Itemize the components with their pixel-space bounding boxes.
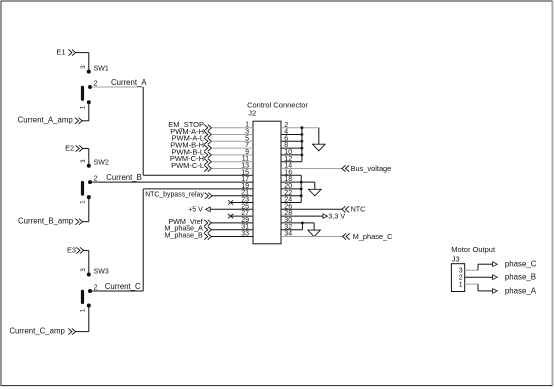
svg-text:M_phase_B: M_phase_B <box>164 231 203 240</box>
svg-text:3: 3 <box>80 268 87 272</box>
wire NTC_bypass_relay to pin 21 <box>212 195 253 197</box>
junction pin 30 <box>301 222 304 225</box>
svg-text:2: 2 <box>94 80 98 87</box>
svg-text:3: 3 <box>80 65 87 69</box>
wire PWM-A-H to pin 3 <box>211 134 253 136</box>
wire PWM-B-H to pin 7 <box>211 147 253 149</box>
wire stub pin 16 <box>281 174 301 176</box>
wire SW2 pin1 to Current_B_amp <box>88 197 90 222</box>
wire pin 30 run <box>281 222 314 224</box>
svg-text:J2: J2 <box>248 108 256 117</box>
wire Current_C vertical <box>142 189 144 291</box>
svg-text:3,3 V: 3,3 V <box>328 212 345 221</box>
switch SW2 pin 2 <box>88 180 92 184</box>
wire +5 V to pin 25 <box>210 208 253 210</box>
wire stub pin 10 <box>281 154 302 156</box>
svg-text:Control Connector: Control Connector <box>247 101 308 110</box>
svg-text:Current_C: Current_C <box>105 282 141 291</box>
power port 3,3 V <box>323 214 328 219</box>
ground 2 <box>309 189 322 196</box>
connector J3 body <box>451 264 464 292</box>
wire to ground 3 <box>313 223 315 230</box>
switch SW2 pin 3 <box>87 164 91 168</box>
svg-text:Current_A: Current_A <box>111 78 147 87</box>
wire NTC from pin 26 <box>281 208 342 210</box>
wire PWM-C-H to pin 11 <box>211 161 253 163</box>
wire PWM-C-L to pin 13 <box>211 168 253 170</box>
svg-text:Motor Output: Motor Output <box>451 245 496 254</box>
signal EM_STOP chevron <box>204 125 211 131</box>
port NTC <box>342 206 349 212</box>
svg-text:E2: E2 <box>65 143 74 152</box>
junction pin 10 <box>301 154 304 157</box>
wire J3 pin1 stub <box>465 283 478 285</box>
wire Current_A to pin 15 <box>143 174 253 176</box>
wire phase_C run <box>477 264 479 270</box>
signal PWM-C-L chevron <box>204 165 211 171</box>
svg-text:phase_C: phase_C <box>505 260 537 269</box>
wire SW1 pin1 to Current_A_amp <box>88 102 90 121</box>
svg-text:3: 3 <box>459 268 463 275</box>
svg-text:1: 1 <box>80 308 87 312</box>
wire stub pin 24 <box>281 202 301 204</box>
switch SW1 actuator bar <box>81 87 84 99</box>
wire stub pin 18 <box>281 181 301 183</box>
bus pins 30-32 <box>301 223 303 230</box>
ground 3 <box>308 230 321 237</box>
svg-text:SW1: SW1 <box>94 65 109 72</box>
switch SW1 pin 3 <box>87 70 91 74</box>
port phase_A <box>493 289 498 294</box>
switch SW1 pin 1 <box>87 100 91 104</box>
wire stub pin 6 <box>281 140 302 142</box>
svg-text:M_phase_C: M_phase_C <box>353 232 394 241</box>
wire Current_B to pin 17 <box>92 181 254 183</box>
signal PWM-B-L chevron <box>204 152 211 158</box>
wire E3 to SW3 pin3 <box>84 249 89 251</box>
signal PWM-A-L chevron <box>204 138 211 144</box>
wire M_phase_C from pin 34 <box>281 236 343 238</box>
wire PWM-A-L to pin 5 <box>211 140 253 142</box>
bus pins 16-24 <box>300 175 302 202</box>
junction pin 20 <box>300 188 303 191</box>
junction pin 22 <box>300 194 303 197</box>
wire stub pin 4 <box>281 134 302 136</box>
wire stub pin 32 <box>281 229 302 231</box>
svg-text:phase_B: phase_B <box>505 273 536 282</box>
bus pins 2-12 <box>301 128 303 162</box>
wire E1 to SW1 pin3 <box>76 52 89 54</box>
svg-text:1: 1 <box>459 282 463 289</box>
svg-text:E3: E3 <box>67 245 76 254</box>
wire stub pin 27 <box>231 215 253 217</box>
connector J2 body <box>253 121 281 244</box>
wire to ground 2 <box>301 181 315 183</box>
wire SW3 pin1 to Current_C_amp <box>88 306 90 332</box>
wire M_phase_B to pin 33 <box>211 236 253 238</box>
switch SW2 actuator bar <box>81 183 84 195</box>
junction pin 2 <box>301 126 304 129</box>
switch SW3 actuator bar <box>81 291 84 302</box>
wire phase_A run <box>477 284 479 291</box>
svg-text:2: 2 <box>94 176 98 183</box>
port Bus_voltage <box>342 165 349 171</box>
svg-text:PWM-C-L: PWM-C-L <box>171 161 204 170</box>
no-connect X pin 23 <box>228 200 233 204</box>
wire stub pin 22 <box>281 195 301 197</box>
wire E2 to SW2 pin3 <box>83 148 89 150</box>
svg-text:2: 2 <box>94 284 98 291</box>
port phase_C <box>493 262 498 267</box>
wire Current_C horizontal <box>92 290 144 292</box>
junction pin 6 <box>301 140 304 143</box>
svg-text:SW3: SW3 <box>94 268 109 275</box>
wire M_phase_A to pin 31 <box>211 229 253 231</box>
wire Current_A vertical <box>142 87 144 175</box>
switch SW2 pin 1 <box>87 195 91 199</box>
wire Current_A horizontal <box>92 86 144 88</box>
svg-text:SW2: SW2 <box>94 160 109 167</box>
wire stub pin 20 <box>281 188 301 190</box>
svg-text:Current_C_amp: Current_C_amp <box>9 326 65 335</box>
svg-text:J3: J3 <box>452 254 460 263</box>
svg-text:+5 V: +5 V <box>188 206 203 213</box>
wire 3,3 V from pin 28 <box>281 215 323 217</box>
svg-text:Current_A_amp: Current_A_amp <box>18 116 74 125</box>
wire PWM_Vref to pin 29 <box>211 222 253 224</box>
port phase_B <box>493 275 498 280</box>
svg-text:NTC: NTC <box>351 205 366 214</box>
signal PWM-A-H chevron <box>204 131 211 137</box>
wire stub pin 8 <box>281 147 302 149</box>
wire PWM-B-L to pin 9 <box>211 154 253 156</box>
no-connect X pin 27 <box>228 214 233 218</box>
junction pin 4 <box>301 133 304 136</box>
signal PWM-C-H chevron <box>204 159 211 165</box>
wire Bus_voltage from pin 14 <box>281 168 342 170</box>
port M_phase_C <box>343 233 350 239</box>
wire pin 2 run <box>281 127 319 129</box>
wire stub pin 12 <box>281 161 302 163</box>
svg-text:E1: E1 <box>56 48 65 57</box>
wire to ground 1 <box>318 128 320 145</box>
border right edge shading <box>552 1 554 386</box>
switch SW3 pin 3 <box>87 273 91 277</box>
ground 1 <box>313 144 326 151</box>
signal PWM-B-H chevron <box>204 145 211 151</box>
wire Current_C to pin 19 <box>143 188 253 190</box>
svg-text:3: 3 <box>80 159 87 163</box>
switch SW3 pin 2 <box>88 289 92 293</box>
svg-text:phase_A: phase_A <box>505 286 537 295</box>
svg-text:1: 1 <box>80 200 87 204</box>
switch SW1 pin 2 <box>88 85 92 89</box>
wire J3 pin3 stub <box>465 269 478 271</box>
junction pin 18 <box>300 181 303 184</box>
wire phase_B run <box>465 276 493 278</box>
svg-text:Bus_voltage: Bus_voltage <box>351 164 392 173</box>
svg-text:1: 1 <box>80 105 87 109</box>
svg-text:NTC_bypass_relay: NTC_bypass_relay <box>145 192 204 199</box>
wire EM_STOP to pin 1 <box>211 127 253 129</box>
wire stub pin 23 <box>231 202 253 204</box>
switch SW3 pin 1 <box>87 304 91 308</box>
svg-text:Current_B: Current_B <box>106 173 142 182</box>
svg-text:Current_B_amp: Current_B_amp <box>18 217 74 226</box>
junction pin 8 <box>301 147 304 150</box>
